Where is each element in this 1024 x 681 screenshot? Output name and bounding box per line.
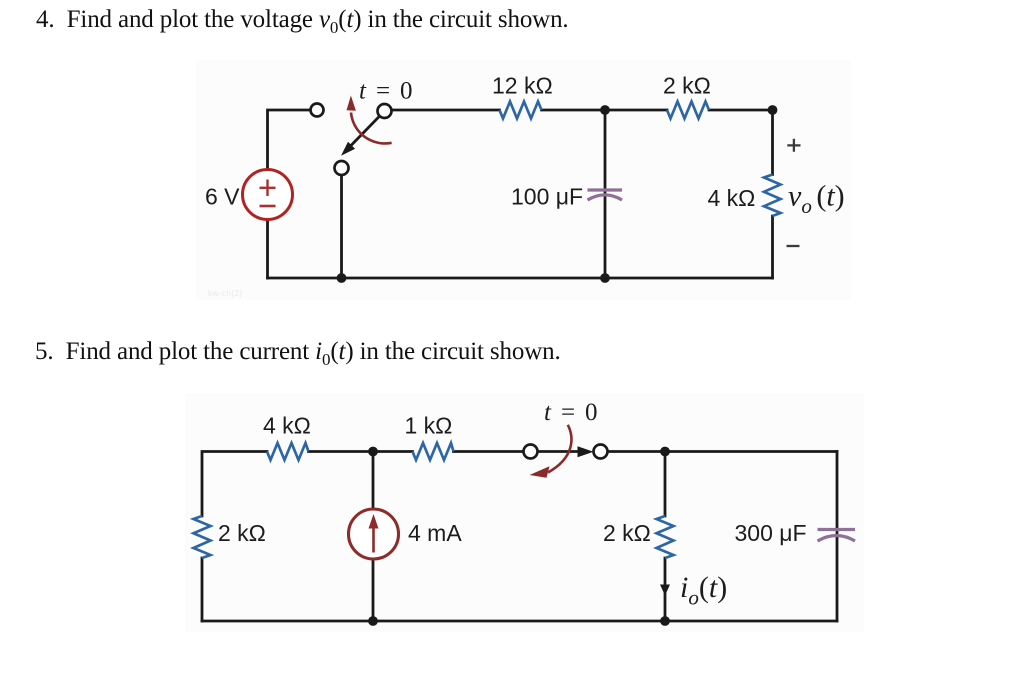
junction node D bottom (c5) [660,616,670,626]
wire: c4 top rail 12k to node A [542,109,606,112]
wire: c5 bottom rail [202,620,837,623]
problem 5 heading [35,338,561,370]
svg-text:kw-ch(2): kw-ch(2) [208,289,243,298]
wire: c4 bottom rail [268,277,773,280]
switch S2 contacts and arm (c5) [538,446,594,457]
junction switch bottom (c4) [337,273,347,283]
wire: c5 top rail node D to corner [665,450,837,453]
junction node D top (c5) [660,447,670,457]
switch S1 throw arrow (red arc, c4) [347,96,392,144]
wire: c4 right rail upper [771,110,774,175]
svg-text:2 kΩ: 2 kΩ [218,520,266,546]
wire: c5 top rail 1k to switch [454,450,524,453]
resistor R6 2 kOhm left (c5, vertical) [194,516,211,558]
label minus sign vo [787,245,800,247]
wire: c4 left rail top segment [268,110,311,169]
wire: c4 left rail bottom segment [266,220,269,278]
label plus sign vo [787,139,800,152]
terminal: c5 switch left contact [524,445,538,459]
wire: c5 middle rail source bottom [372,559,375,621]
wire: c5 right rail through capacitor [836,452,839,622]
capacitor C2 300uF (c5) [818,530,856,542]
svg-text:100 μF: 100 μF [511,184,583,210]
wire: c5 top rail 4k to node C [309,450,374,453]
wire: c4 top rail 2k to node B [709,109,773,112]
svg-text:vo(t): vo(t) [788,180,845,219]
svg-text:2 kΩ: 2 kΩ [663,73,711,99]
resistor R7 2 kOhm right (c5, vertical) [657,516,674,558]
wire: c4 switch lower branch [340,175,343,278]
wire: c4 right rail lower [771,216,774,278]
resistor 12 kOhm (c4) [500,102,542,119]
junction node C bottom (c5) [368,616,378,626]
switch S1 arm (c4) [342,117,379,156]
wire: c4 middle rail through capacitor [604,110,607,278]
svg-text:300 μF: 300 μF [735,520,807,546]
wire: c4 top rail node A to 2k [605,109,667,112]
terminal: c4 source-side open contact [311,104,324,117]
terminal: c4 lower open contact [335,161,349,175]
wire: c5 top rail switch to node D [608,450,666,453]
circuit 5 figure background [185,393,864,632]
voltage source V1 6V (c4) [243,170,293,220]
terminal: c4 switch pivot open contact [378,104,392,118]
terminal: c5 switch right contact [594,445,608,459]
circuit 4 figure background [196,60,851,300]
svg-text:4 kΩ: 4 kΩ [708,185,756,211]
junction node A bottom (c4) [600,273,610,283]
svg-text:io(t): io(t) [680,571,727,610]
svg-text:2 kΩ: 2 kΩ [603,520,651,546]
svg-text:6 V: 6 V [205,184,240,210]
resistor R5 1 kOhm (c5) [413,443,454,460]
resistor R2 2 kOhm top (c4) [667,102,709,119]
wire: c5 rail through 2k and io arrow [664,452,667,622]
wire: c5 left rail lower [201,558,204,621]
io(t) direction arrow (c5) [660,585,670,596]
junction node A top (c4) [600,105,610,115]
wire: c5 left rail upper [202,452,267,517]
wire: c4 top rail pivot to 12k [392,109,500,112]
wire: c5 top rail node C to 1k [373,450,413,453]
switch S2 throw arrow (red arc, c5) [530,425,572,478]
junction node B top right (c4) [768,105,778,115]
wire: c5 middle rail source top [372,452,375,510]
junction node C top (c5) [368,447,378,457]
resistor R3 4 kOhm (c4, vertical) [764,175,781,217]
current source I1 4 mA (c5) [349,509,399,559]
svg-text:4 kΩ: 4 kΩ [263,413,311,439]
svg-text:4 mA: 4 mA [408,520,462,546]
resistor R4 4 kOhm (c5) [267,443,309,460]
svg-text:1 kΩ: 1 kΩ [405,413,453,439]
problem 4 heading [36,6,569,38]
capacitor C1 100uF (c4) [588,190,623,200]
svg-text:12 kΩ: 12 kΩ [492,73,553,99]
